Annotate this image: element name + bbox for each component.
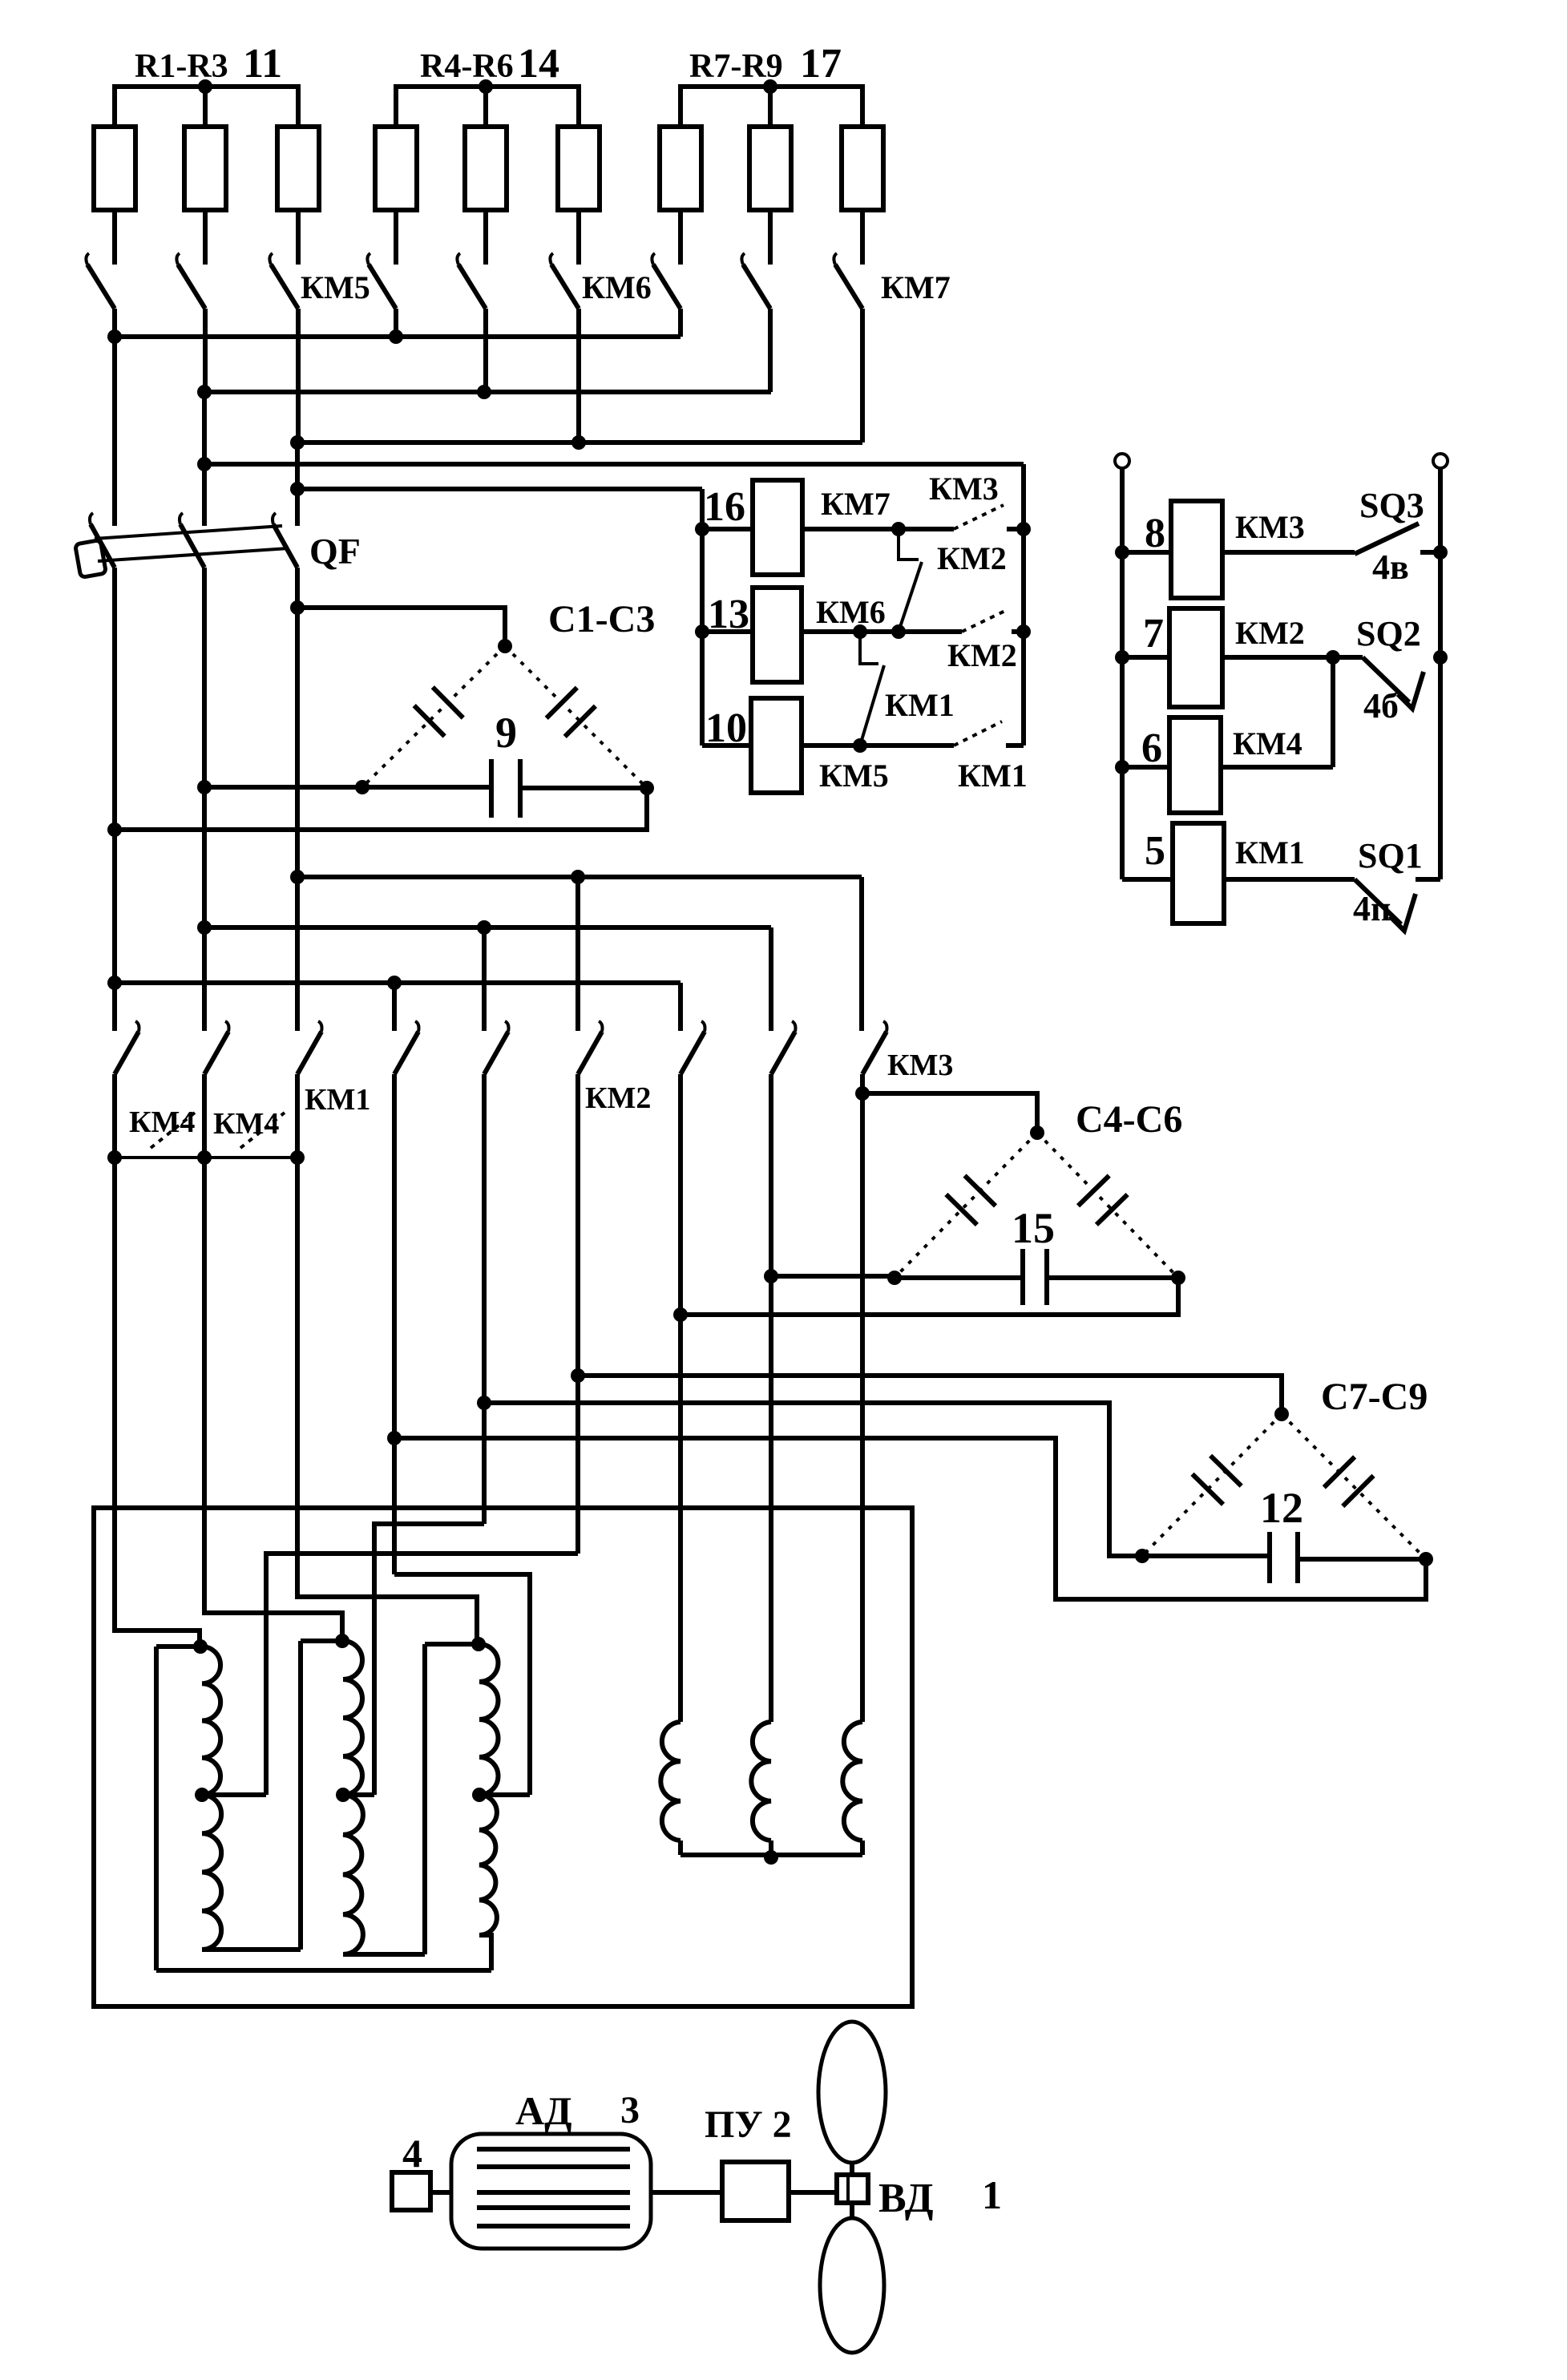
svg-text:SQ2: SQ2 bbox=[1356, 614, 1421, 653]
svg-text:КМ6: КМ6 bbox=[816, 594, 886, 630]
svg-text:SQ3: SQ3 bbox=[1359, 486, 1424, 525]
svg-text:КМ1: КМ1 bbox=[1235, 834, 1305, 871]
svg-text:7: 7 bbox=[1143, 611, 1164, 657]
svg-text:16: 16 bbox=[704, 484, 745, 530]
svg-text:КМ3: КМ3 bbox=[1235, 509, 1305, 545]
svg-text:8: 8 bbox=[1145, 511, 1165, 556]
svg-text:КМ3: КМ3 bbox=[887, 1049, 953, 1082]
svg-text:C1-C3: C1-C3 bbox=[548, 598, 655, 640]
svg-text:11: 11 bbox=[243, 41, 282, 87]
svg-text:КМ7: КМ7 bbox=[821, 486, 891, 522]
svg-text:КМ2: КМ2 bbox=[1235, 615, 1305, 651]
svg-text:10: 10 bbox=[705, 705, 747, 751]
svg-text:4: 4 bbox=[402, 2131, 422, 2176]
svg-text:КМ2: КМ2 bbox=[947, 637, 1017, 673]
svg-text:12: 12 bbox=[1260, 1484, 1303, 1532]
svg-text:КМ5: КМ5 bbox=[819, 758, 889, 794]
svg-text:КМ4: КМ4 bbox=[213, 1107, 279, 1141]
svg-text:4б: 4б bbox=[1363, 686, 1399, 725]
svg-text:КМ1: КМ1 bbox=[305, 1083, 370, 1117]
svg-text:4в: 4в bbox=[1372, 548, 1409, 587]
svg-text:C7-C9: C7-C9 bbox=[1321, 1376, 1428, 1418]
svg-text:КМ6: КМ6 bbox=[582, 269, 652, 305]
svg-text:15: 15 bbox=[1012, 1204, 1055, 1252]
svg-text:17: 17 bbox=[800, 41, 842, 87]
svg-text:6: 6 bbox=[1141, 725, 1162, 771]
svg-text:9: 9 bbox=[495, 709, 517, 757]
svg-text:1: 1 bbox=[982, 2172, 1002, 2217]
svg-text:R4-R6: R4-R6 bbox=[420, 48, 514, 85]
svg-text:КМ3: КМ3 bbox=[929, 471, 999, 507]
svg-text:QF: QF bbox=[309, 531, 361, 572]
svg-text:КМ1: КМ1 bbox=[958, 758, 1028, 794]
svg-text:КМ1: КМ1 bbox=[885, 687, 955, 723]
svg-text:C4-C6: C4-C6 bbox=[1076, 1098, 1182, 1141]
svg-text:АД: АД bbox=[515, 2088, 572, 2133]
svg-text:14: 14 bbox=[518, 41, 559, 87]
svg-text:КМ2: КМ2 bbox=[937, 540, 1007, 576]
svg-text:SQ1: SQ1 bbox=[1358, 836, 1423, 875]
svg-text:R1-R3: R1-R3 bbox=[135, 48, 228, 85]
svg-text:КМ5: КМ5 bbox=[301, 269, 370, 305]
svg-text:КМ7: КМ7 bbox=[881, 269, 951, 305]
svg-text:ВД: ВД bbox=[878, 2176, 934, 2221]
svg-text:3: 3 bbox=[620, 2089, 640, 2131]
svg-text:КМ4: КМ4 bbox=[1233, 725, 1302, 762]
svg-text:4п: 4п bbox=[1353, 889, 1391, 928]
svg-text:ПУ 2: ПУ 2 bbox=[705, 2103, 792, 2146]
svg-text:КМ2: КМ2 bbox=[585, 1081, 651, 1115]
svg-text:R7-R9: R7-R9 bbox=[689, 48, 783, 85]
svg-text:5: 5 bbox=[1145, 828, 1165, 874]
svg-text:13: 13 bbox=[708, 592, 749, 637]
